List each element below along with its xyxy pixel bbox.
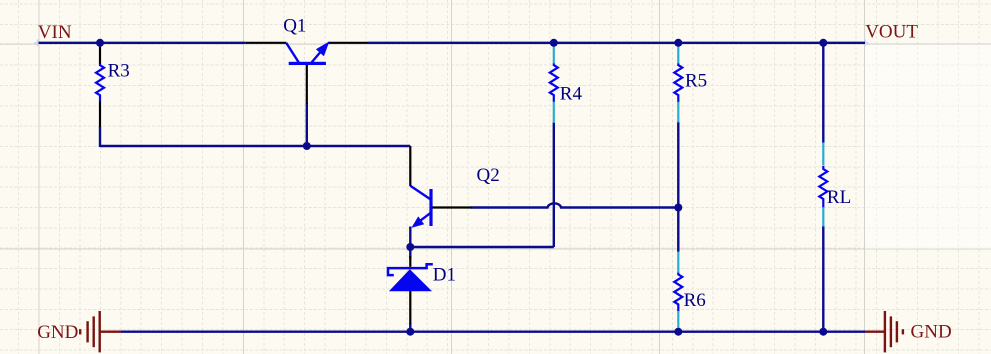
resistor bodies (blue zigzag): [96, 64, 827, 312]
node Q1 base / R3: [303, 142, 311, 150]
wire Q1 base lower: [306, 103, 308, 146]
ground symbol right: [865, 311, 903, 352]
node R3/VIN: [96, 39, 104, 47]
resistor R5 body: [674, 64, 682, 102]
pin R4 bottom: [553, 102, 555, 124]
wire top right segment: [368, 42, 865, 44]
wire R3 bottom stub: [99, 126, 101, 147]
svg-text:R4: R4: [560, 83, 583, 104]
svg-text:R6: R6: [684, 290, 706, 311]
node Q2 base / divider: [674, 204, 682, 212]
wire-end cross marker at VIN port: [34, 39, 41, 46]
node Q2 emitter / D1: [406, 243, 414, 251]
wire mid horizontal: [100, 145, 410, 147]
pin R6 top: [677, 252, 679, 273]
wire top VIN segment: [39, 42, 246, 44]
svg-text:VIN: VIN: [38, 22, 72, 43]
svg-text:VOUT: VOUT: [865, 22, 918, 43]
pin Q1 emitter: [328, 42, 368, 44]
resistor RL body: [819, 166, 827, 207]
svg-text:GND: GND: [911, 322, 952, 343]
pin Q2 collector: [409, 146, 411, 186]
wire R6 upper: [677, 207, 679, 252]
pin Q2 base: [431, 206, 472, 208]
transistor Q1: [286, 41, 329, 65]
Q1 emitter arrowhead: [316, 41, 330, 56]
resistor R6 body: [674, 273, 682, 311]
Q2 base bar: [429, 189, 432, 226]
pin RL bottom: [822, 207, 824, 227]
D1 cathode bar with zener hooks: [388, 264, 433, 275]
node R6 bottom: [674, 328, 682, 336]
svg-text:D1: D1: [433, 265, 456, 286]
wire-end cross marker at VOUT port: [862, 39, 869, 46]
node D1 bottom: [406, 328, 414, 336]
Q1 collector limb: [286, 43, 299, 63]
Q2 collector limb: [410, 186, 430, 199]
pin Q1 collector: [246, 42, 286, 44]
svg-text:R3: R3: [108, 61, 130, 82]
Q1 emitter limb: [312, 46, 327, 63]
svg-text:RL: RL: [827, 187, 851, 208]
Q2 emitter limb: [414, 213, 430, 225]
wire R4 bottom horizontal to Q2 emitter: [409, 246, 554, 248]
Q1 base bar: [289, 62, 326, 65]
wire D1 bottom stub: [409, 323, 411, 332]
lighter off-sheet region top-right: [865, 45, 991, 249]
wire R5 lower: [677, 122, 679, 209]
pin R3 top: [99, 43, 101, 64]
pin R3 bottom: [99, 102, 101, 127]
pin RL top: [822, 142, 824, 165]
resistor R3 body: [96, 64, 104, 102]
wire bottom rail: [121, 331, 865, 333]
pin D1 anode: [409, 291, 411, 324]
D1 anode triangle: [389, 269, 432, 291]
black pins: [100, 43, 472, 324]
pin Q1 base: [306, 65, 308, 105]
wire RL lower: [822, 226, 824, 332]
cyan pins: [554, 44, 824, 331]
pin R5 bottom: [677, 102, 679, 123]
svg-text:Q1: Q1: [283, 16, 306, 37]
wire RL upper: [822, 43, 824, 143]
zener diode D1: [388, 264, 433, 275]
node R5 top: [674, 39, 682, 47]
pin R4 top: [553, 44, 555, 64]
svg-text:GND: GND: [37, 322, 78, 343]
svg-text:R5: R5: [685, 71, 707, 92]
pin R5 top: [677, 44, 679, 64]
resistor R4 body: [550, 64, 558, 102]
ground symbol left: [80, 311, 121, 352]
pin D1 cathode: [409, 256, 411, 267]
pin R6 bottom: [677, 311, 679, 332]
node R4 top: [550, 39, 558, 47]
transistor Q2: [410, 186, 432, 228]
wire Q2 base to R5 with hop: [471, 203, 678, 207]
node RL bottom: [819, 328, 827, 336]
node RL top: [819, 39, 827, 47]
svg-text:Q2: Q2: [477, 165, 500, 186]
wire D1 top stub: [409, 246, 411, 259]
Q2 emitter arrowhead: [412, 216, 425, 227]
wire R4 column vertical: [553, 122, 555, 247]
wire Q2 emitter stub: [409, 227, 411, 249]
